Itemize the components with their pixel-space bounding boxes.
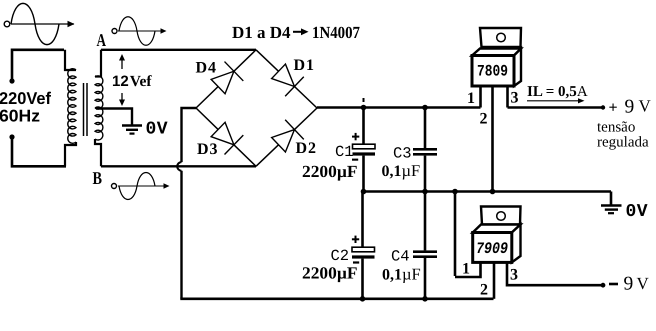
7809 pin 2 xyxy=(491,86,494,192)
node B waveform symbol xyxy=(112,173,170,200)
7909 pin 2 xyxy=(493,262,496,298)
svg-text:D1: D1 xyxy=(294,57,316,74)
center tap wire to ground xyxy=(96,109,132,126)
wire A: secondary top to bridge xyxy=(101,49,256,51)
svg-text:3: 3 xyxy=(510,267,518,284)
svg-text:1: 1 xyxy=(467,90,475,107)
svg-text:A: A xyxy=(97,30,107,50)
C1 polarity minus xyxy=(352,159,358,161)
diode D3 xyxy=(209,120,244,155)
negative bottom rail xyxy=(180,297,493,300)
junction dot xyxy=(422,189,428,195)
svg-text:7909: 7909 xyxy=(476,240,508,258)
svg-text:D3: D3 xyxy=(197,141,219,158)
zero volt mid rail xyxy=(364,190,612,193)
svg-text:B: B xyxy=(93,168,103,188)
regulator U1 7809 package xyxy=(472,28,521,86)
C2 polarity plus xyxy=(352,236,359,243)
svg-text:C2: C2 xyxy=(331,247,350,265)
7809 pin 3 xyxy=(506,86,509,108)
capacitor C2 xyxy=(361,192,364,248)
regulator U2 7909 package xyxy=(473,207,521,263)
ground (center tap 0V) xyxy=(122,126,142,134)
junction dot xyxy=(361,189,367,195)
svg-text:D1 a D4: D1 a D4 xyxy=(232,23,291,42)
junction dot xyxy=(360,296,366,302)
transformer T1 xyxy=(65,50,103,167)
7909 pin 1 wire to 0V rail xyxy=(454,192,457,277)
primary terminal dot bottom xyxy=(9,134,14,139)
svg-text:2: 2 xyxy=(480,282,488,299)
svg-text:IL = 0,5A: IL = 0,5A xyxy=(527,84,588,100)
7809 pin 1 xyxy=(479,86,482,108)
C1 polarity plus xyxy=(352,133,359,140)
junction dot xyxy=(490,189,496,195)
wire B: secondary bottom to bridge bottom vertex xyxy=(101,165,256,167)
svg-text:0,1µF: 0,1µF xyxy=(382,161,421,180)
primary winding xyxy=(65,50,76,70)
junction dot xyxy=(422,296,428,302)
svg-text:7809: 7809 xyxy=(477,63,508,81)
svg-text:D2: D2 xyxy=(296,140,318,157)
svg-text:regulada: regulada xyxy=(597,135,649,151)
ground 0V right xyxy=(610,192,613,206)
label -9V xyxy=(609,283,618,286)
diode D4 xyxy=(209,62,244,97)
svg-text:0V: 0V xyxy=(626,202,649,222)
svg-text:tensão: tensão xyxy=(597,120,635,136)
junction dot xyxy=(452,189,458,195)
7909 pin 3 xyxy=(507,262,601,285)
svg-text:+: + xyxy=(609,100,618,117)
output terminal dot xyxy=(601,105,605,109)
junction tick xyxy=(363,98,365,102)
svg-text:2200µF: 2200µF xyxy=(302,162,358,181)
wire: bridge left vertex to negative rail (with hop over B wire) xyxy=(182,108,197,162)
svg-text:0,1µF: 0,1µF xyxy=(382,265,421,284)
svg-text:3: 3 xyxy=(511,90,519,107)
bridge diamond edges xyxy=(196,50,317,167)
output terminal dot xyxy=(601,283,606,288)
12Vef annotation with arrows xyxy=(121,57,123,103)
diode D1 xyxy=(269,62,304,97)
svg-text:220Vef: 220Vef xyxy=(0,89,51,108)
svg-text:D4: D4 xyxy=(196,60,218,77)
capacitor C3 xyxy=(424,108,427,149)
capacitor C4 xyxy=(424,192,427,251)
junction dot xyxy=(422,105,428,111)
primary terminal dot top xyxy=(9,78,14,83)
svg-text:60Hz: 60Hz xyxy=(0,107,40,126)
svg-text:2: 2 xyxy=(480,111,488,128)
junction dot xyxy=(361,105,367,111)
svg-text:9: 9 xyxy=(624,274,634,295)
svg-text:1: 1 xyxy=(462,261,470,278)
secondary winding upper half xyxy=(95,50,101,77)
svg-text:12Vef: 12Vef xyxy=(112,73,152,90)
primary loop wire xyxy=(12,50,66,167)
AC mains waveform symbol xyxy=(4,3,74,44)
core xyxy=(83,83,85,136)
svg-text:1N4007: 1N4007 xyxy=(312,23,360,42)
svg-text:C4: C4 xyxy=(391,248,410,266)
node A waveform symbol xyxy=(112,17,167,46)
svg-text:V: V xyxy=(639,97,652,116)
svg-text:0V: 0V xyxy=(146,120,169,140)
svg-text:9: 9 xyxy=(625,97,635,118)
svg-text:C1: C1 xyxy=(335,143,354,161)
svg-text:2200µF: 2200µF xyxy=(302,264,358,283)
+9V output wire xyxy=(508,106,603,109)
capacitor C1 xyxy=(362,108,365,145)
secondary winding lower half xyxy=(95,107,103,140)
C2 polarity minus xyxy=(353,261,359,263)
svg-text:V: V xyxy=(637,274,650,293)
positive rail: bridge right vertex to 7809 pin1 xyxy=(317,106,481,109)
diode D2 xyxy=(269,120,304,155)
svg-text:C3: C3 xyxy=(393,145,412,163)
